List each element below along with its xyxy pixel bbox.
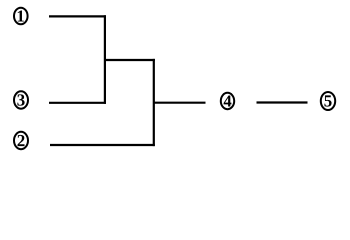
wire vertical V2 joining middle wire and node 2 <box>153 59 155 146</box>
wire vertical V1 joining nodes 1 and 3 <box>104 15 106 104</box>
wire middle horizontal from V1 to V2 <box>104 59 155 61</box>
wire from node 4 to node 5 <box>257 101 308 103</box>
node 3 (circled digit 3) <box>14 91 28 108</box>
wire from node 1 (horizontal) <box>49 15 106 17</box>
node 1 (circled digit 1) <box>14 8 28 25</box>
node 4 (circled digit 4) <box>221 93 234 109</box>
wire from node 2 (horizontal) <box>50 144 155 146</box>
node 5 (circled digit 5) <box>321 92 335 110</box>
wire from node 3 (horizontal) <box>49 102 106 104</box>
node 2 (circled digit 2) <box>14 132 28 149</box>
wire from V2 to node 4 <box>154 102 206 104</box>
